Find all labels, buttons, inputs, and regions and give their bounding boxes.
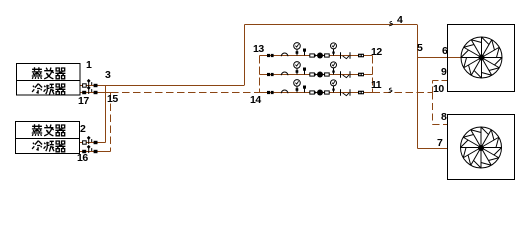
unit2 cabinet xyxy=(16,122,80,154)
wire 16 xyxy=(80,151,105,153)
check valve xyxy=(340,89,342,95)
check valve xyxy=(340,71,342,77)
wire riser left xyxy=(244,25,246,86)
pressure gauge xyxy=(333,68,335,75)
sight glass xyxy=(281,90,288,93)
valve 16 xyxy=(82,150,86,153)
flange fitting xyxy=(358,73,364,77)
flange fitting xyxy=(358,54,364,58)
label 8 xyxy=(441,112,446,123)
flange fitting xyxy=(267,73,270,76)
wire 17 xyxy=(80,92,111,94)
label 4 xyxy=(397,15,402,26)
wire right drop xyxy=(417,25,419,149)
wire suction dashed left xyxy=(111,92,260,94)
manifold left header dashed xyxy=(259,56,261,93)
wire top run xyxy=(245,24,418,26)
label 12 xyxy=(371,47,382,58)
pressure gauge xyxy=(333,86,335,93)
label 9 xyxy=(441,67,446,78)
label 11 xyxy=(371,80,381,91)
pressure gauge xyxy=(296,86,298,92)
fan 2 xyxy=(461,127,502,168)
label 6 xyxy=(442,46,447,57)
wire 7 to fan2 xyxy=(418,148,449,150)
valve 2 xyxy=(83,141,87,144)
wire 15 dashed vertical xyxy=(104,93,111,152)
solenoid valve xyxy=(310,54,315,57)
pressure gauge xyxy=(333,49,335,56)
label 17 xyxy=(78,96,89,107)
fan 1 xyxy=(461,37,502,78)
manifold row 2 wire xyxy=(260,74,373,76)
wire suction dashed right xyxy=(373,92,433,94)
unit1 evaporator text xyxy=(32,67,42,79)
label 7 xyxy=(437,138,442,149)
valve 17 xyxy=(82,91,86,94)
solenoid valve xyxy=(310,73,315,76)
condensing unit 1 box xyxy=(448,25,515,92)
manifold row 3 wire xyxy=(260,92,373,94)
temperature sensor xyxy=(304,86,306,92)
label 14 xyxy=(250,95,261,106)
wire 9 dashed riser xyxy=(433,81,448,93)
label 5 xyxy=(417,43,422,54)
wire 2 xyxy=(80,142,106,144)
unit1 condenser text xyxy=(32,84,42,94)
check valve xyxy=(340,52,342,58)
sight glass xyxy=(281,53,288,56)
solenoid valve xyxy=(310,91,315,94)
condensing unit 2 box xyxy=(448,115,515,180)
label 10 xyxy=(433,84,444,95)
temperature sensor xyxy=(304,68,306,74)
wire 8 dashed drop xyxy=(433,93,448,125)
flange fitting xyxy=(267,54,270,57)
label 1 xyxy=(86,60,91,71)
sight glass xyxy=(281,72,288,75)
label 13 xyxy=(253,44,264,55)
wire node3 drop to unit2 xyxy=(105,86,107,143)
manifold right header xyxy=(372,56,374,93)
unit1 cabinet xyxy=(17,64,81,96)
temperature sensor xyxy=(304,49,306,55)
manifold row 1 wire xyxy=(260,55,373,57)
unit2 condenser text xyxy=(32,141,42,151)
wire main liquid line horizontal xyxy=(80,85,244,87)
strainer squiggle on suction line xyxy=(389,88,393,92)
pressure gauge xyxy=(296,49,298,55)
wire 6 to fan1 xyxy=(418,57,462,59)
label 15 xyxy=(107,94,118,105)
label 2 xyxy=(80,124,85,135)
flange fitting xyxy=(358,91,364,95)
strainer squiggle on top run xyxy=(389,21,393,25)
label 3 xyxy=(105,70,110,81)
label 16 xyxy=(77,153,88,164)
flange fitting xyxy=(267,91,270,94)
pressure gauge xyxy=(296,68,298,74)
valve 1 xyxy=(83,84,87,87)
unit2 evaporator text xyxy=(32,124,42,136)
